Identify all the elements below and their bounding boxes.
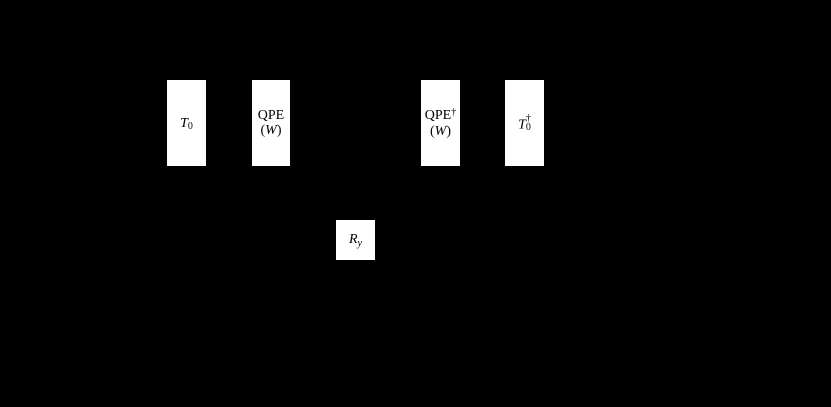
gate QPE(W) bbox=[252, 80, 290, 166]
gate T0-dagger bbox=[505, 80, 544, 166]
gate QPE-dagger(W) bbox=[421, 80, 460, 166]
gate Ry bbox=[336, 220, 375, 260]
gate T0 bbox=[167, 80, 206, 166]
